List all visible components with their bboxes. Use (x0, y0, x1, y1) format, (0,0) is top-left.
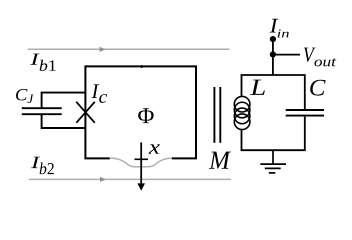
ground (272, 150, 274, 164)
mutual inductance M coupling lines (213, 87, 215, 143)
wire I_b1 bias line (28, 48, 230, 50)
displacement arrow x (140, 142, 142, 184)
arrowhead on I_b2 line (100, 177, 106, 182)
wire V_out (273, 54, 300, 56)
label L (250, 80, 265, 95)
capacitor C plates (286, 109, 324, 111)
label C_J (16, 89, 34, 103)
label C (310, 80, 325, 96)
wire I_in stem (272, 39, 274, 75)
node dot V_out junction (270, 51, 276, 57)
label x (148, 144, 159, 154)
LC tank wires (242, 75, 305, 150)
label I_b1 (30, 54, 55, 71)
label I_c (91, 84, 107, 103)
label V_out (304, 48, 337, 67)
membrane (gray curve across loop gap) (110, 158, 173, 167)
capacitor C_J branch wires (42, 93, 86, 128)
tick on loop top edge (141, 65, 143, 68)
label M (209, 152, 231, 169)
label flux Phi (138, 108, 153, 123)
tick on displacement arrow (135, 158, 149, 160)
arrowhead on I_b1 line (100, 47, 106, 52)
label I_in (270, 19, 289, 38)
capacitor C_J plates (22, 107, 62, 109)
SQUID loop wire (rectangle with bottom gap) (85, 66, 196, 158)
Josephson junction X (76, 102, 95, 123)
label I_b2 (31, 157, 54, 175)
node dot I_in (270, 36, 276, 42)
wire I_b2 bias line (29, 178, 231, 180)
inductor L coil (234, 96, 250, 129)
